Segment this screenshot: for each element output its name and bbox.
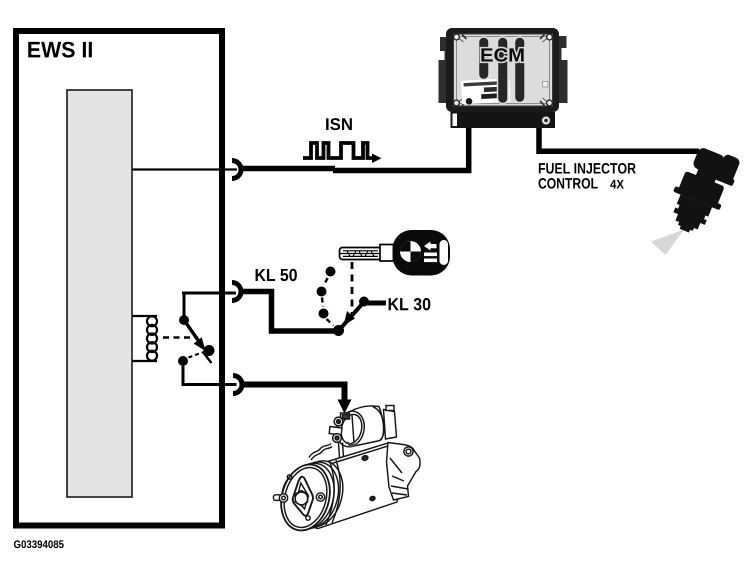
KL 30 feed contact [359,297,369,307]
starter motor [274,406,421,536]
EWS II label [28,42,92,58]
relay coil [132,316,157,361]
ignition switch junction node [333,325,344,336]
front rings [287,455,350,532]
bracket tab [384,410,397,440]
connector: ISN at EWS box edge [232,161,241,179]
side bolts [274,495,282,501]
FUEL INJECTOR CONTROL 4X label [539,163,636,174]
EWS II control module box [16,31,222,526]
wire: relay to KL50 connector (inside box) [182,292,236,295]
dashed link: key to ignition switch [351,262,354,316]
ignition key [340,230,451,276]
wire: KL 50 [241,292,336,332]
terminals [341,413,350,419]
connector: KL 50 at EWS box edge [232,283,241,301]
internal module block [67,90,132,497]
KL 30 label [389,298,431,310]
wire: EWS to starter motor [242,385,345,402]
front face [274,459,337,536]
wire: ISN to ECM [241,166,335,172]
dashed link: coil to relay switch [163,336,198,338]
flange [387,443,421,501]
ISN square-wave signal [303,143,375,158]
figure number G03394085 [14,540,64,548]
connector: starter output at EWS box edge [233,376,242,394]
diamond plate [293,477,313,516]
wire: relay to starter connector (inside box) [182,383,237,386]
fuel injector [661,141,743,242]
solenoid [350,406,384,447]
wire: ECM to fuel injector [539,128,699,151]
harness curves [309,444,331,458]
ISN label [326,118,352,130]
body seam lines [326,462,334,525]
ECM module [439,28,568,128]
main body [282,443,400,529]
KL 50 label [256,269,297,281]
body detail dots [361,455,368,461]
fuel injector spray cone [651,230,684,256]
ignition switch position dots [317,267,336,319]
relay switch [178,293,215,385]
wire: ISN output inside EWS [132,168,237,170]
